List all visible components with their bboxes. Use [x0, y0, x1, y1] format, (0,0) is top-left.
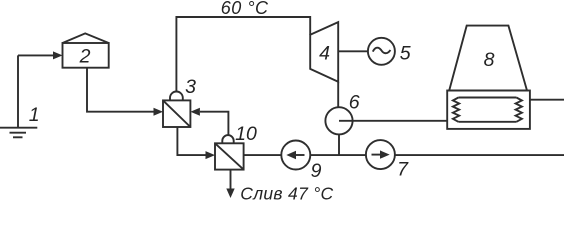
svg-text:10: 10: [235, 123, 257, 145]
svg-text:5: 5: [400, 43, 411, 65]
svg-text:9: 9: [311, 160, 322, 182]
ground / water source symbol: [0, 55, 37, 137]
svg-text:3: 3: [185, 76, 196, 98]
wire condenser 6 to bottom pipe: [338, 134, 340, 155]
svg-text:2: 2: [79, 45, 91, 67]
pump 9: [281, 141, 310, 170]
svg-text:4: 4: [319, 42, 330, 64]
heat exchanger 10: [215, 135, 244, 170]
wire cooling tower 8 outlet right: [530, 99, 564, 101]
svg-text:60 °C: 60 °C: [221, 0, 269, 18]
condenser 6: [325, 107, 352, 134]
svg-text:1: 1: [29, 104, 40, 126]
wire steam pipe 60C to turbine 4: [176, 17, 310, 92]
wire drain from exchanger 10 (with arrow): [226, 170, 234, 198]
pump 7: [366, 140, 395, 169]
wire exchanger 3 to exchanger 10 (with arrow): [177, 127, 215, 159]
wire ground to tank 2 (with arrow): [18, 51, 63, 59]
generator 5: [368, 38, 395, 65]
svg-text:Слив 47 °C: Слив 47 °C: [240, 184, 333, 201]
wire condenser 6 to cooling tower 8: [339, 120, 447, 122]
wire turbine exhaust to condenser 6: [337, 82, 339, 107]
cooling tower 8: [447, 26, 530, 129]
tank 2 (make-up water tank): [63, 33, 109, 67]
wire vent 10 to exchanger 3 (with arrow): [190, 108, 228, 135]
svg-text:8: 8: [484, 49, 495, 71]
svg-text:7: 7: [397, 159, 409, 181]
wire shaft turbine to generator: [338, 50, 368, 52]
wire bottom cooling water pipe: [244, 154, 564, 156]
wire tank 2 to heat exchanger 3 (with arrow): [87, 68, 163, 116]
turbine 4: [310, 22, 338, 82]
svg-text:6: 6: [349, 92, 360, 114]
heat exchanger 3: [163, 92, 190, 128]
